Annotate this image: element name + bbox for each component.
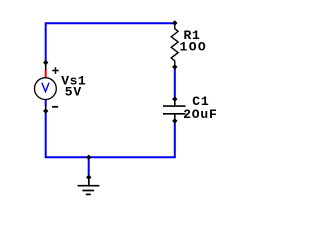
svg-text:1OO: 1OO (180, 40, 208, 55)
svg-text:2OuF: 2OuF (183, 107, 217, 122)
svg-text:5V: 5V (65, 84, 82, 99)
